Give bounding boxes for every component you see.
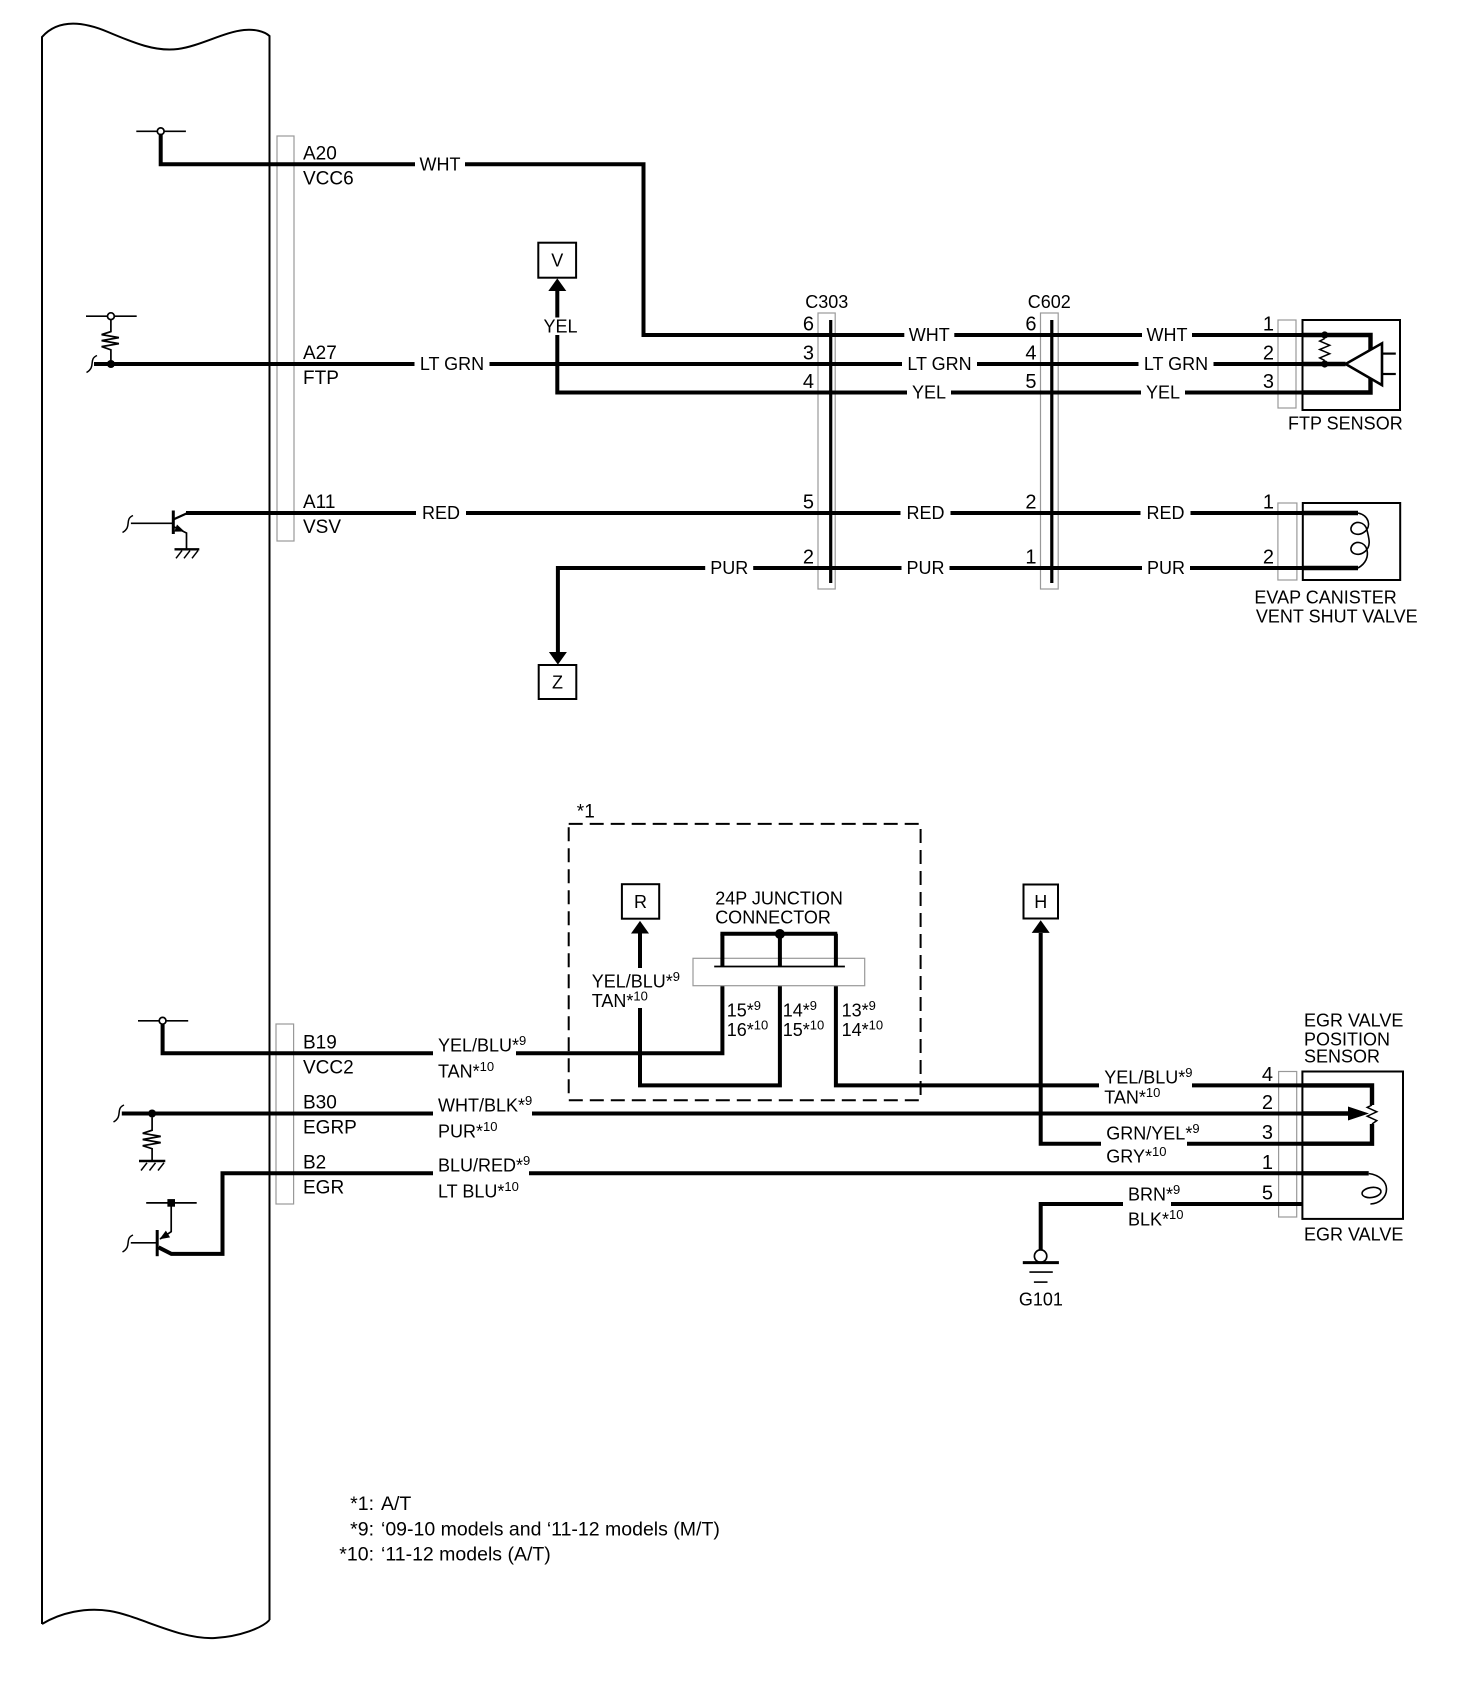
FTP sensor divider resistor (1320, 339, 1330, 361)
svg-text:4: 4 (1262, 1064, 1273, 1086)
svg-text:2: 2 (803, 547, 814, 569)
connector C602 housing (1041, 313, 1059, 589)
svg-text:EVAP CANISTER: EVAP CANISTER (1254, 588, 1396, 608)
wire A20 VCC6 / WHT row (power to C303, jog down) (161, 134, 1303, 335)
svg-text:2: 2 (1025, 492, 1036, 514)
svg-text:*9:: *9: (350, 1519, 374, 1541)
EVAP valve connector strip (1278, 503, 1297, 580)
svg-text:YEL: YEL (912, 383, 946, 403)
svg-text:YEL/BLU*9: YEL/BLU*9 (1104, 1065, 1192, 1088)
svg-text:B2: B2 (303, 1152, 326, 1173)
EGR valve box (1302, 1072, 1403, 1219)
ground G101 (1023, 1250, 1059, 1282)
svg-text:4: 4 (803, 371, 814, 393)
svg-text:C602: C602 (1028, 292, 1071, 312)
svg-text:1: 1 (1263, 314, 1274, 336)
svg-text:LT GRN: LT GRN (420, 354, 484, 374)
svg-text:6: 6 (803, 314, 814, 336)
svg-text:A11: A11 (303, 492, 335, 513)
wire A27 LT GRN row (94, 362, 1303, 366)
svg-text:‘11-12 models (A/T): ‘11-12 models (A/T) (381, 1544, 551, 1566)
torn-wire hook at B2 base (123, 1235, 134, 1252)
svg-text:GRN/YEL*9: GRN/YEL*9 (1106, 1121, 1199, 1144)
wire label GRN/YEL*9 / GRY*10 (EGR pin3) (1101, 1125, 1187, 1147)
power symbol at B19 (VCC2) (138, 1017, 188, 1024)
svg-text:5: 5 (1262, 1183, 1273, 1205)
FTP sensor buffer triangle (1346, 343, 1382, 385)
junction dot B30 (148, 1110, 156, 1118)
svg-text:‘09-10 models and ‘11-12 model: ‘09-10 models and ‘11-12 models (M/T) (381, 1519, 720, 1541)
svg-text:24P JUNCTION: 24P JUNCTION (715, 889, 843, 909)
svg-text:5: 5 (1025, 371, 1036, 393)
wire B2 EGR row (via transistor) (159, 1173, 1303, 1254)
transistor at A11 (VSV driver) (131, 511, 187, 549)
wire labels C303-C602 (904, 326, 954, 344)
svg-text:RED: RED (422, 503, 460, 523)
svg-text:WHT: WHT (420, 155, 461, 175)
destination arrow Z (539, 665, 577, 699)
wire label LT GRN (A27) (415, 355, 490, 373)
wire label WHT (A20) (415, 155, 465, 173)
ECM connector strip A (A20/A27/A11) (277, 136, 294, 541)
wire label YEL/BLU*9 / TAN*10 (R branch) (587, 968, 682, 1008)
svg-text:YEL: YEL (1146, 383, 1180, 403)
svg-text:SENSOR: SENSOR (1304, 1047, 1380, 1067)
svg-text:A/T: A/T (381, 1493, 411, 1515)
svg-text:PUR: PUR (710, 558, 748, 578)
svg-text:3: 3 (1263, 371, 1274, 393)
svg-text:2: 2 (1262, 1092, 1273, 1114)
wire H arrow to EGR pin 3 (1041, 933, 1303, 1144)
svg-text:LT GRN: LT GRN (907, 354, 971, 374)
C602 terminal line (1050, 320, 1053, 583)
wire label WHT/BLK*9 / PUR*10 (B30) (433, 1097, 532, 1119)
svg-text:B19: B19 (303, 1032, 337, 1053)
junction dot A27 (107, 360, 115, 368)
svg-text:EGR VALVE: EGR VALVE (1304, 1225, 1403, 1245)
C303 terminal line (829, 320, 832, 583)
wire label YEL (to V) (538, 318, 583, 336)
pull-down resistor to ground at B30 (EGRP) (143, 1118, 161, 1161)
connector C303 housing (818, 313, 835, 589)
EVAP valve solenoid coil (1303, 511, 1358, 515)
svg-text:1: 1 (1025, 547, 1036, 569)
svg-text:VCC2: VCC2 (303, 1058, 354, 1079)
destination arrow R (622, 884, 659, 919)
torn-wire hook at A11 base (123, 516, 134, 533)
svg-text:VSV: VSV (303, 517, 341, 538)
svg-text:BRN*9: BRN*9 (1128, 1182, 1180, 1205)
svg-text:V: V (551, 251, 563, 271)
wire EGR pin 5 to G101 (1041, 1204, 1303, 1250)
svg-text:RED: RED (1146, 503, 1184, 523)
FTP SENSOR box (1303, 320, 1401, 410)
svg-text:4: 4 (1025, 343, 1036, 365)
svg-text:3: 3 (803, 343, 814, 365)
EGR position sensor potentiometer (1302, 1085, 1372, 1105)
svg-text:PUR: PUR (906, 558, 944, 578)
svg-text:EGRP: EGRP (303, 1118, 357, 1139)
svg-text:A27: A27 (303, 343, 337, 364)
svg-text:FTP: FTP (303, 368, 339, 389)
wire label YEL/BLU*9 / TAN*10 (B19) (433, 1037, 516, 1059)
EGR valve solenoid coil (1302, 1171, 1368, 1175)
svg-text:YEL: YEL (543, 316, 577, 336)
svg-text:3: 3 (1262, 1122, 1273, 1144)
svg-text:YEL/BLU*9: YEL/BLU*9 (438, 1033, 526, 1056)
torn-wire hook at B30 (114, 1105, 125, 1122)
EVAP canister vent shut valve box (1303, 503, 1400, 580)
svg-text:C303: C303 (805, 292, 848, 312)
svg-text:5: 5 (803, 492, 814, 514)
wire B30 EGRP row (122, 1112, 1303, 1116)
svg-text:VENT SHUT VALVE: VENT SHUT VALVE (1256, 607, 1418, 627)
svg-text:Z: Z (552, 672, 563, 692)
svg-text:H: H (1034, 892, 1047, 912)
svg-text:*1:: *1: (350, 1493, 374, 1515)
svg-text:*10:: *10: (339, 1544, 374, 1566)
svg-text:R: R (634, 892, 647, 912)
svg-text:2: 2 (1263, 547, 1274, 569)
svg-text:G101: G101 (1019, 1290, 1063, 1310)
svg-text:CONNECTOR: CONNECTOR (715, 908, 831, 928)
svg-text:LT GRN: LT GRN (1144, 354, 1208, 374)
svg-text:EGR: EGR (303, 1178, 344, 1199)
svg-text:A20: A20 (303, 143, 337, 164)
wire label PUR (C303-C602) (902, 559, 950, 577)
transistor at B2 (EGR driver) (131, 1203, 197, 1256)
wire B19 VCC2 to junction connector (163, 986, 723, 1054)
svg-text:2: 2 (1263, 343, 1274, 365)
pull-up resistor + power at A27 (FTP) (86, 313, 137, 361)
svg-text:PUR: PUR (1147, 558, 1185, 578)
torn-wire hook at A27 (87, 356, 98, 373)
svg-text:B30: B30 (303, 1093, 337, 1114)
svg-text:6: 6 (1025, 314, 1036, 336)
svg-text:FTP SENSOR: FTP SENSOR (1288, 414, 1403, 434)
svg-text:VCC6: VCC6 (303, 169, 354, 190)
wire junction to EGR pin 4 (YEL/BLU) (836, 986, 1303, 1086)
wire YEL row (to V arrow) (557, 291, 1303, 393)
wire PUR row (to Z arrow) (558, 568, 1303, 654)
svg-text:BLU/RED*9: BLU/RED*9 (438, 1153, 530, 1176)
ground under B30 resistor (139, 1161, 165, 1171)
wire label BRN*9 / BLK*10 (EGR pin5) (1123, 1186, 1171, 1208)
24P junction connector bus bar and legs (720, 934, 837, 967)
ECM connector strip B (B19/B30/B2) (276, 1024, 294, 1204)
svg-text:1: 1 (1262, 1152, 1273, 1174)
FTP sensor internal wiring (pins 1-3) (1303, 335, 1371, 393)
24P junction connector housing strip (693, 958, 865, 985)
svg-text:EGR VALVE: EGR VALVE (1304, 1011, 1403, 1031)
svg-text:1: 1 (1263, 492, 1274, 514)
svg-text:WHT/BLK*9: WHT/BLK*9 (438, 1093, 532, 1116)
destination arrow H (1024, 885, 1059, 919)
destination arrow V (538, 243, 576, 278)
svg-text:WHT: WHT (1147, 325, 1188, 345)
wire label YEL/BLU*9 / TAN*10 (EGR pin4) (1099, 1069, 1192, 1091)
junction bus dot (775, 929, 785, 939)
EGR connector strip (1279, 1072, 1297, 1218)
ECM/PCM body (torn-edge band) (42, 24, 270, 1639)
dashed box *1 (A/T only) (569, 824, 921, 1100)
wire label RED (A11) (416, 504, 466, 522)
wire labels C602-components (1142, 326, 1192, 344)
svg-text:RED: RED (906, 503, 944, 523)
wire label PUR (to Z / C303) (705, 559, 753, 577)
wire junction to R arrow (640, 934, 780, 1086)
svg-text:WHT: WHT (909, 325, 950, 345)
wire label BLU/RED*9 / LT BLU*10 (B2) (433, 1157, 529, 1179)
FTP sensor connector strip (1278, 320, 1296, 408)
wire A11 RED row (186, 511, 1303, 515)
svg-text:*1: *1 (577, 801, 595, 822)
power symbol at A20 (VCC6) (136, 128, 186, 135)
ground under A11 transistor (175, 549, 200, 558)
